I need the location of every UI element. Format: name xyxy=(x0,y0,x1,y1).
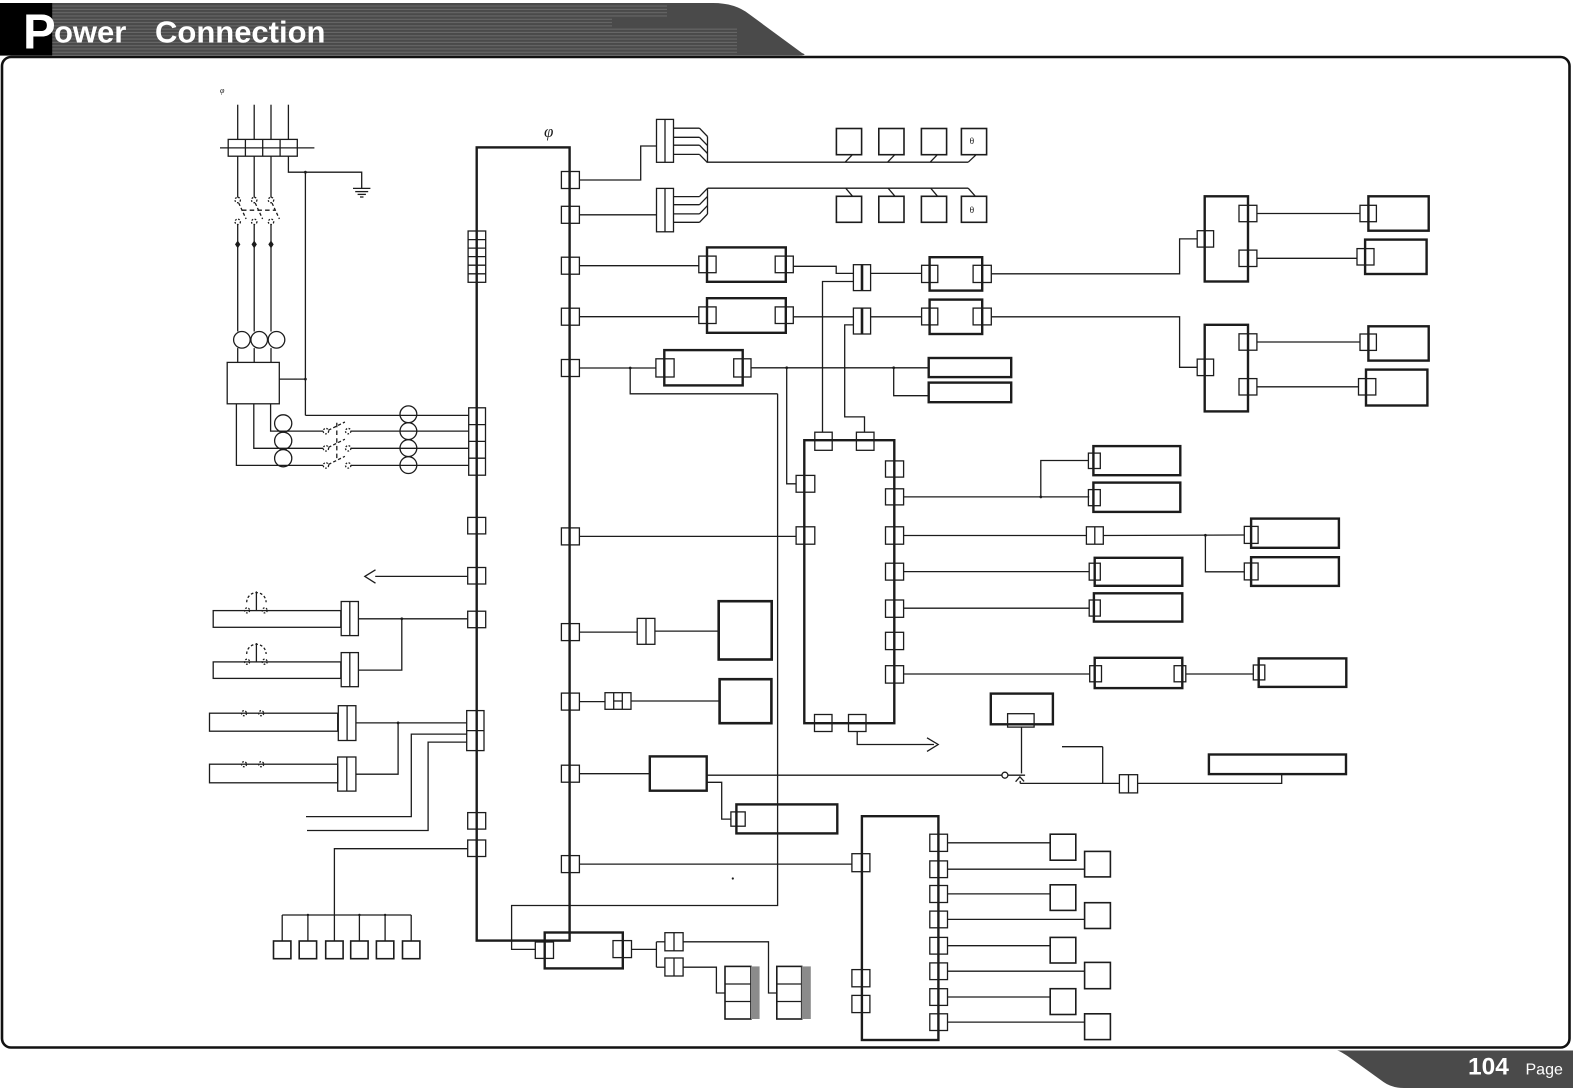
wire comb feed xyxy=(334,849,467,915)
pin CN-R10 xyxy=(561,856,579,873)
pin CN-R8 xyxy=(561,693,579,710)
pin CN-R3 xyxy=(561,257,579,274)
wire L3 lower xyxy=(270,225,272,332)
sensor box RA xyxy=(1251,519,1339,548)
wire stub B xyxy=(307,742,467,830)
load box LA3 xyxy=(1050,937,1076,963)
wire F1 to box xyxy=(237,348,239,362)
terminal block TB2 outline xyxy=(862,816,939,1040)
pin M1 xyxy=(1360,205,1376,221)
node main left feed xyxy=(785,366,788,369)
wire TB2 to LB3 xyxy=(948,970,1085,972)
sensor box SR5 xyxy=(1095,658,1183,688)
wire L1 to breaker xyxy=(237,156,239,197)
ribbon connector CN-B xyxy=(657,188,674,231)
load box LB2 xyxy=(1085,903,1111,929)
inline connector CN401 xyxy=(1119,775,1137,793)
pin TB2 out5 xyxy=(930,937,948,954)
pin U1 right3 xyxy=(886,527,904,544)
wire CN-R8 to CN302 xyxy=(579,701,605,703)
stray dot xyxy=(732,877,734,879)
sensor SN4 body xyxy=(210,764,338,783)
wire TB-A to M2 xyxy=(1257,257,1357,259)
comb bus xyxy=(282,914,411,916)
coil T2 xyxy=(275,432,292,449)
wire FB1 out xyxy=(632,948,657,950)
node cap tap xyxy=(892,366,895,369)
wire N to ground run xyxy=(288,156,361,188)
sensor SN3 body xyxy=(210,713,338,731)
pin RB xyxy=(1244,563,1258,580)
capacitor stack G2 xyxy=(777,966,802,1019)
wire row4 from filter xyxy=(236,404,323,466)
wire CN201 to RA xyxy=(1103,534,1244,537)
sensor SN2 body xyxy=(213,662,341,679)
wire CN101 to K2 xyxy=(871,272,922,274)
pin CN-R1 xyxy=(561,172,579,189)
SN3 contact a xyxy=(242,711,247,716)
connector block CN-PWR xyxy=(469,408,486,475)
node RA/RB split xyxy=(1204,534,1207,537)
footer page tab xyxy=(1337,1051,1573,1088)
wire TB2 to LA1 xyxy=(948,842,1051,844)
wire CN-R7 to CN301 xyxy=(579,631,637,633)
bus wire row2 xyxy=(708,187,969,189)
header P tab xyxy=(0,3,52,56)
sensor box SR6 xyxy=(1259,658,1347,687)
switch unit SW2-4 xyxy=(961,196,986,222)
pin U1 right7 xyxy=(886,666,904,683)
vertical net N2 to main block xyxy=(787,368,796,484)
pin TB2 out4 xyxy=(930,911,948,928)
wire SN1 to CN-L3 xyxy=(358,618,467,620)
inverter block U1 xyxy=(804,440,894,723)
pin M4 xyxy=(1359,379,1376,395)
SN4 contact a xyxy=(242,762,247,767)
pin K3 right xyxy=(775,307,793,324)
wire U1 sensor line xyxy=(904,535,1087,537)
SN3 contact b xyxy=(259,711,264,716)
wire CN102 to K4 xyxy=(871,316,922,318)
fuse F2 xyxy=(251,332,268,349)
wire U1 to SR4 xyxy=(904,607,1090,609)
terminal board TB-B xyxy=(1205,325,1248,412)
fan box FM1 xyxy=(1093,446,1180,475)
pin SR5 right xyxy=(1174,666,1186,682)
pin TB2 out2 xyxy=(930,861,948,878)
inline connector CN501 xyxy=(665,933,683,951)
connector block CN-L4 xyxy=(467,711,484,751)
reactor R4 circle xyxy=(400,457,417,474)
wire F3 to box xyxy=(270,348,272,362)
supply line L3 xyxy=(270,105,272,140)
load box LA2 xyxy=(1050,885,1076,911)
pin U1 right4 xyxy=(886,563,904,580)
SN3 connector xyxy=(338,706,356,741)
inline connector CN201 xyxy=(1086,527,1103,544)
pin K2 right xyxy=(973,265,991,282)
wire SN2 link xyxy=(358,619,401,670)
option connector OP2 xyxy=(307,915,309,941)
sensor SN1 body xyxy=(213,611,341,628)
sensor box RB xyxy=(1251,557,1339,586)
main control PCB outline xyxy=(477,147,570,940)
sensor box SR3 xyxy=(1095,558,1183,586)
wire CN-R1 to ribbon CN-A xyxy=(579,146,656,180)
connector block CN6 left edge xyxy=(468,231,486,282)
ribbon fan A xyxy=(674,127,700,129)
arrowhead right xyxy=(927,738,938,752)
wire CN102 return to main block xyxy=(845,325,865,432)
load box LB1 xyxy=(1085,851,1111,877)
wire CN-R10 to TB2 xyxy=(579,863,852,865)
pin U1 right6 xyxy=(886,632,904,649)
arrowhead left xyxy=(365,570,376,583)
motor box M2 xyxy=(1365,240,1427,274)
pin FM1 xyxy=(1088,453,1100,468)
pin U1 left1 xyxy=(796,475,815,492)
wire K2 to TB-A xyxy=(991,239,1197,274)
inline connector CN301 xyxy=(637,618,655,644)
svg-text:Connection: Connection xyxy=(155,15,326,50)
ribbon connector CN-A xyxy=(657,119,674,162)
pin TB2 out3 xyxy=(930,886,948,903)
wire L1 bypass down xyxy=(630,368,777,394)
fuse F1 xyxy=(234,332,251,349)
wire SN3 to CN-L4 xyxy=(356,722,467,724)
switch S2 link dashed xyxy=(336,423,338,461)
pin TB2 out1 xyxy=(930,834,948,851)
pin CN-L6 xyxy=(468,840,486,857)
wire SN4 link xyxy=(356,723,398,774)
pin L1 left xyxy=(656,359,674,377)
pin CN-R9 xyxy=(561,765,579,782)
pin U1 bottom1 xyxy=(815,715,833,732)
wire U1 arrow out xyxy=(857,732,934,745)
reactor R2 circle xyxy=(400,423,417,440)
neutral bus vertical xyxy=(304,172,306,415)
indicator bar LB2 xyxy=(1209,755,1346,775)
node fan split xyxy=(1039,496,1042,499)
relay K2 box xyxy=(930,257,983,290)
capacitor bar C2 xyxy=(929,383,1012,403)
node L1 feed xyxy=(629,367,632,370)
bus wire row1 xyxy=(708,161,969,163)
pin CN-R6 xyxy=(561,528,579,545)
wire CN-R6 to U1 xyxy=(579,535,796,537)
wire CN501 to G2 xyxy=(683,942,777,993)
pin K4 right xyxy=(973,308,991,325)
switch unit SW1-1 xyxy=(836,129,861,155)
wire F2 to box xyxy=(253,348,255,362)
wire L1 lower xyxy=(237,225,239,332)
pin U1 left2 xyxy=(796,527,815,544)
wire TB2 to LA3 xyxy=(948,945,1051,947)
wire K3 to CN102 xyxy=(793,316,853,318)
coil T3 xyxy=(275,450,292,467)
pin K1 right xyxy=(775,256,793,273)
wire split up xyxy=(656,941,665,943)
pin L1 right xyxy=(734,359,751,377)
node neutral tap xyxy=(304,378,307,381)
pin TS1 xyxy=(731,812,745,826)
wire CN-R5 to L1 box xyxy=(579,367,656,369)
wire to cap bar2 xyxy=(894,368,929,396)
wire row3 from filter xyxy=(254,404,323,449)
pin TB-A in xyxy=(1197,231,1213,247)
wire CN-R9 to XF1 xyxy=(579,773,649,775)
wire L1 to cap bars xyxy=(751,367,929,369)
node SN junction1 xyxy=(400,617,403,620)
SN4 contact b xyxy=(259,762,264,767)
pin TB2 aux1 xyxy=(852,970,870,987)
sensor box SR4 xyxy=(1094,593,1182,621)
filter box FB1 xyxy=(545,933,623,969)
reactor R3 circle xyxy=(400,440,417,457)
load box LA4 xyxy=(1050,989,1076,1015)
pin TB2 out7 xyxy=(930,989,948,1006)
sensor SN1 bell xyxy=(247,593,266,603)
pin FB1 left xyxy=(535,942,553,958)
wire SR5 to SR6 xyxy=(1186,673,1254,675)
pin K2 left xyxy=(922,265,938,282)
wire row1 phase bus xyxy=(305,414,468,416)
SN1 contact b xyxy=(262,608,267,613)
wire arrow left xyxy=(375,575,468,577)
wire CN-R3 to relay K1 xyxy=(579,265,698,267)
pin TB-A out2 xyxy=(1239,250,1257,266)
coil T1 xyxy=(275,415,292,432)
switch unit SW2-3 xyxy=(921,196,946,222)
wire row2 from filter xyxy=(271,404,324,431)
option connector OP5 xyxy=(384,915,386,941)
option connector OP1 xyxy=(281,915,283,941)
switch S1 link dashed xyxy=(242,209,275,211)
wire TB2 to LA4 xyxy=(948,996,1051,998)
hook wire stub xyxy=(1062,747,1103,784)
SN1 connector xyxy=(341,602,358,636)
pin U1 right5 xyxy=(886,600,904,617)
svg-text:θ: θ xyxy=(970,206,975,216)
wire TB2 to LB4 xyxy=(948,1021,1085,1023)
switch unit SW1-3 xyxy=(921,129,946,155)
SN2 contact b xyxy=(262,659,267,664)
wire L2 lower xyxy=(253,225,255,332)
wire CN401 to bar xyxy=(1138,774,1282,783)
wire K1 to CN101 xyxy=(793,266,853,273)
switch unit SW1-2 xyxy=(879,129,904,155)
motor box M3 xyxy=(1368,326,1428,360)
SN4 connector xyxy=(338,757,356,791)
pin K1 left xyxy=(699,256,716,273)
reactor box L1 xyxy=(664,350,742,385)
pin TB2 aux2 xyxy=(852,995,870,1012)
noise filter box xyxy=(227,362,279,403)
supply line L2 xyxy=(253,105,255,140)
node N junction xyxy=(304,171,307,174)
pin M2 xyxy=(1357,249,1374,265)
wire TB2 to LB1 xyxy=(948,868,1085,870)
power module PS2 xyxy=(720,679,772,723)
terminal strip TS1 xyxy=(736,804,837,833)
wire CN301 to PS1 xyxy=(655,630,719,632)
pin U1 bottom2 xyxy=(849,715,867,732)
supply line N xyxy=(287,105,289,140)
wire L2 to breaker xyxy=(253,156,255,197)
wire CN101 return to main block xyxy=(823,282,854,433)
pin SR3 xyxy=(1089,563,1100,580)
svg-text:P: P xyxy=(23,6,56,60)
wire U1 to fan boxes xyxy=(904,496,1041,498)
pin CN-R7 xyxy=(561,624,579,641)
wire XF1 main out xyxy=(707,774,1002,776)
load box LB4 xyxy=(1085,1014,1111,1040)
pin M3 xyxy=(1360,334,1376,350)
pin SR5 left xyxy=(1090,666,1102,682)
svg-text:Page: Page xyxy=(1526,1061,1563,1078)
capacitor bar C1 xyxy=(929,358,1012,377)
relay K3 box xyxy=(707,298,786,333)
pin CN-L5 xyxy=(468,813,486,830)
fan box FM2 xyxy=(1093,483,1180,512)
sensor SN2 bell xyxy=(247,644,266,654)
load box LB3 xyxy=(1085,962,1111,988)
pin FM2 xyxy=(1088,490,1100,506)
wire U1 to SR3 xyxy=(904,571,1090,573)
wire split down xyxy=(656,966,665,968)
pin TB2 out8 xyxy=(930,1014,948,1031)
pin K4 left xyxy=(922,308,938,325)
pin U1 right2 xyxy=(886,489,904,505)
wire TB-B to M4 xyxy=(1257,386,1359,388)
wire K4 to TB-B xyxy=(991,317,1197,368)
pin SR4 xyxy=(1089,600,1100,616)
DU1 connector xyxy=(1008,714,1035,727)
wire row4 to block xyxy=(351,464,469,466)
inline connector CN101 xyxy=(853,265,870,291)
wire U1 to SR5 xyxy=(904,673,1090,675)
pin CN-R5 xyxy=(561,360,579,377)
svg-text:φ: φ xyxy=(220,86,225,95)
svg-text:θ: θ xyxy=(970,137,975,147)
wire row3 to block xyxy=(351,447,469,449)
wire FB1 split xyxy=(655,942,657,967)
ground symbol xyxy=(353,187,370,189)
wire filter to neutral bus xyxy=(279,378,305,380)
wire stub A xyxy=(306,734,467,817)
plug symbol xyxy=(1016,777,1025,784)
pin RA xyxy=(1244,526,1258,543)
main switch S1 poles xyxy=(235,197,240,202)
wire TB2 to LA2 xyxy=(948,893,1051,895)
wire TB-A to M1 xyxy=(1257,213,1360,215)
pin K3 left xyxy=(699,307,716,324)
inline connector CN502 xyxy=(665,958,683,976)
pin U1 right1 xyxy=(886,461,904,477)
relay K4 box xyxy=(930,300,983,334)
wire DU1 down xyxy=(1021,727,1023,773)
pin TB-B out1 xyxy=(1239,334,1257,350)
pin TB2 out6 xyxy=(930,963,948,980)
motor box M4 xyxy=(1366,370,1427,406)
transformer XF1 box xyxy=(650,756,707,790)
pin CN-R2 xyxy=(561,206,579,223)
wire CN-R2 to ribbon CN-B xyxy=(579,214,656,216)
pin CN-L1 xyxy=(468,517,486,534)
power module PS1 xyxy=(719,601,772,659)
wire plug to CN401 xyxy=(1020,782,1119,784)
svg-text:φ: φ xyxy=(544,122,553,141)
display unit DU1 xyxy=(991,694,1053,725)
ribbon fan B xyxy=(674,196,700,198)
pin TB-A out1 xyxy=(1239,205,1257,221)
terminal board TB-A xyxy=(1205,196,1248,281)
reactor R1 circle xyxy=(400,406,417,423)
option connector OP6 xyxy=(410,915,412,941)
wire split to RB xyxy=(1205,535,1244,572)
pin U1 top1 xyxy=(815,432,832,450)
disconnect switch S2 poles xyxy=(323,428,328,433)
wire to FM2 xyxy=(1041,496,1089,498)
pin TB-B in xyxy=(1197,359,1213,376)
terminal circle xyxy=(1002,772,1008,778)
SN2 contact a xyxy=(245,659,250,664)
pin TB-B out2 xyxy=(1239,379,1257,395)
pin FB1 right xyxy=(613,941,632,958)
wire CN-R4 to relay K3 xyxy=(579,316,698,318)
node SN junction2 xyxy=(397,722,400,725)
pin SR6 xyxy=(1253,665,1265,680)
wire L3 to breaker xyxy=(270,156,272,197)
SN2 connector xyxy=(341,653,358,687)
wire TB-B to M3 xyxy=(1257,341,1360,343)
inline connector CN102 xyxy=(853,308,870,334)
svg-text:104: 104 xyxy=(1468,1053,1509,1080)
wire CN502 to G1 xyxy=(683,967,725,993)
switch unit SW2-2 xyxy=(879,196,904,222)
pin CN-L3 xyxy=(468,611,486,628)
motor box M1 xyxy=(1368,196,1428,230)
switch unit SW2-1 xyxy=(836,196,861,222)
svg-text:ower: ower xyxy=(54,15,126,50)
terminal block TB1 xyxy=(228,139,297,156)
wire row2 to block xyxy=(351,430,469,432)
long vertical net N1 xyxy=(512,394,778,950)
pin CN-R4 xyxy=(561,308,579,325)
pin TB2 in xyxy=(852,854,870,872)
load box LA1 xyxy=(1050,834,1076,860)
switch unit SW1-4 xyxy=(961,129,986,155)
option connector OP4 xyxy=(358,915,360,941)
inline connector CN302 xyxy=(605,693,631,710)
relay K1 box xyxy=(707,247,786,281)
supply line L1 xyxy=(237,105,239,140)
SN1 contact a xyxy=(245,608,250,613)
pin CN-L2 xyxy=(468,568,486,585)
capacitor stack G1 xyxy=(725,966,751,1019)
wire CN302 to PS2 xyxy=(631,700,720,702)
wire XF1 tap down xyxy=(707,782,731,819)
pin U1 top2 xyxy=(856,432,874,450)
fuse F3 xyxy=(268,332,285,349)
option connector OP3 xyxy=(333,915,335,941)
wire TB2 to LB2 xyxy=(948,918,1085,920)
